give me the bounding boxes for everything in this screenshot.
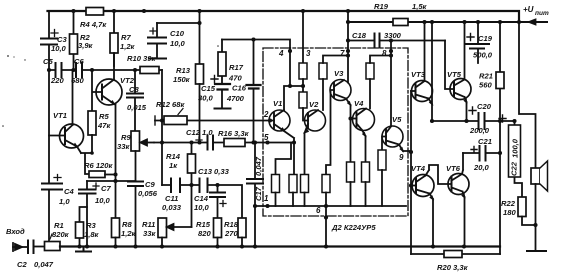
svg-text:R11: R11 xyxy=(142,220,155,229)
label pin 1 xyxy=(264,194,269,203)
node dots pin 8 xyxy=(389,38,393,57)
resistor R12 xyxy=(164,109,187,125)
svg-text:4: 4 xyxy=(278,49,284,58)
capacitor C5 xyxy=(56,63,62,77)
resistor R16 xyxy=(224,139,245,147)
node junctions top rail xyxy=(71,9,305,13)
wire C10 line xyxy=(157,11,200,64)
svg-text:33к: 33к xyxy=(117,142,130,151)
transistor V4 xyxy=(351,109,375,163)
svg-text:820к: 820к xyxy=(52,230,70,239)
resistor internal RB5 xyxy=(378,150,386,206)
label V4 xyxy=(354,99,364,108)
node dots pin5 line xyxy=(189,140,296,144)
svg-text:180: 180 xyxy=(503,208,516,217)
svg-text:10,0: 10,0 xyxy=(194,203,210,212)
ground under R3 xyxy=(76,247,91,252)
resistor internal Rb4 xyxy=(322,175,330,207)
resistor R4 xyxy=(86,8,104,16)
capacitor C4 electrolytic xyxy=(42,175,62,190)
label C12 1,0 xyxy=(186,128,213,137)
resistor R20 xyxy=(444,251,462,258)
svg-text:R14: R14 xyxy=(166,152,181,161)
transistor V3 xyxy=(330,80,351,163)
label C20 200,0 xyxy=(469,102,492,135)
svg-text:560: 560 xyxy=(479,81,492,90)
svg-text:0,056: 0,056 xyxy=(138,189,158,198)
svg-text:V5: V5 xyxy=(392,115,402,124)
capacitor C20 electrolytic xyxy=(469,107,485,129)
svg-text:C22: C22 xyxy=(510,161,519,176)
svg-text:R3: R3 xyxy=(86,221,96,230)
transistor V1 xyxy=(269,110,294,175)
capacitor C12 electrolytic xyxy=(196,136,213,150)
wire VT2 emitter vertical xyxy=(115,105,117,219)
label R17 470 xyxy=(228,63,244,83)
label C19 500,0 xyxy=(473,34,493,60)
wire R20 feedback line xyxy=(411,253,500,255)
scan specks xyxy=(2,45,219,232)
svg-text:R8: R8 xyxy=(122,220,132,229)
resistor R14 xyxy=(188,143,196,228)
wire internal bottom bus xyxy=(255,205,406,207)
transistor VT4 xyxy=(411,165,452,247)
wire wiper line to pin5 xyxy=(154,142,294,144)
wire pin9 driver vertical xyxy=(410,91,412,254)
label R1 820k xyxy=(52,221,70,239)
label C5 220 xyxy=(43,57,64,85)
svg-text:C16: C16 xyxy=(232,84,247,93)
wire C18 to VT5 base xyxy=(445,41,454,90)
resistor internal RA2 xyxy=(299,92,308,121)
label C15 30,0 xyxy=(198,84,216,103)
wire R10 drop vertical x162 xyxy=(161,70,163,185)
capacitor C8 xyxy=(127,70,143,131)
svg-text:270: 270 xyxy=(224,229,238,238)
label C16 4700 xyxy=(226,84,247,104)
svg-text:VT1: VT1 xyxy=(53,111,67,120)
svg-text:VT2: VT2 xyxy=(120,76,135,85)
wire y181 branch xyxy=(87,180,136,182)
svg-text:C5: C5 xyxy=(43,57,53,66)
node dots emitter vertical xyxy=(113,172,117,183)
resistor R21 xyxy=(496,22,504,254)
svg-text:R7: R7 xyxy=(121,33,131,42)
node dot R5 bottom xyxy=(90,151,94,155)
label R15 820 xyxy=(196,220,211,238)
wire C11 C13 line xyxy=(162,185,242,218)
svg-text:220: 220 xyxy=(50,76,64,85)
label C6 680 xyxy=(71,57,84,85)
IC D2 K224UR5 dashed border xyxy=(263,48,408,216)
label R2 3,9k xyxy=(78,33,94,50)
svg-text:3300: 3300 xyxy=(384,31,402,40)
svg-text:1,8к: 1,8к xyxy=(84,230,100,239)
resistor R19 xyxy=(393,19,408,26)
ground speaker xyxy=(527,250,546,252)
label C14 10,0 xyxy=(194,194,210,212)
svg-text:9: 9 xyxy=(399,153,404,162)
resistor R2 xyxy=(70,11,78,70)
resistor internal Rb2 xyxy=(289,175,297,207)
wire pin4 feed line xyxy=(222,40,290,49)
svg-text:V4: V4 xyxy=(354,99,364,108)
svg-text:R12 68к: R12 68к xyxy=(156,100,185,109)
svg-text:8: 8 xyxy=(382,49,387,58)
label pin 9 xyxy=(399,153,404,162)
svg-text:500,0: 500,0 xyxy=(473,51,493,60)
capacitor C6 xyxy=(76,63,82,77)
svg-text:6: 6 xyxy=(316,206,321,215)
capacitor C14 electrolytic xyxy=(210,185,226,218)
capacitor C2 xyxy=(28,241,45,254)
resistor R15 xyxy=(214,218,222,247)
resistor R3 xyxy=(76,207,88,247)
terminal input arrow xyxy=(13,243,28,251)
svg-text:C7: C7 xyxy=(101,184,111,193)
node dot C14 tap xyxy=(215,183,219,187)
resistor internal Rb5 xyxy=(347,162,355,206)
node dots x162 xyxy=(160,118,164,144)
resistor internal RC xyxy=(366,56,391,109)
label C2 0,047 xyxy=(17,260,54,269)
wire output node line xyxy=(432,120,515,122)
label pin 5 xyxy=(264,133,269,142)
svg-text:R17: R17 xyxy=(229,63,244,72)
svg-text:47к: 47к xyxy=(97,121,111,130)
svg-text:R13: R13 xyxy=(176,66,191,75)
ground bar under C10 xyxy=(149,58,166,60)
capacitor C11 xyxy=(171,179,180,193)
label R5 47k xyxy=(97,112,111,130)
svg-text:33к: 33к xyxy=(143,229,156,238)
svg-text:4700: 4700 xyxy=(226,94,245,103)
svg-text:470: 470 xyxy=(228,74,242,83)
resistor internal RB xyxy=(319,56,348,111)
svg-text:R6 120к: R6 120к xyxy=(84,161,113,170)
label C21 20,0 xyxy=(473,137,492,172)
svg-text:1,5к: 1,5к xyxy=(412,2,428,11)
label R16 3,3k xyxy=(218,129,250,138)
resistor R8 xyxy=(112,218,120,247)
label R19 1,5k xyxy=(374,2,428,11)
resistor R17 xyxy=(218,40,226,85)
label R21 560 xyxy=(479,72,493,90)
node dot R14 bottom xyxy=(189,183,193,187)
node dots driver vertical xyxy=(409,150,413,188)
svg-text:R20 3,3к: R20 3,3к xyxy=(437,263,469,272)
label pin 6 xyxy=(316,206,321,215)
label D2 K224UR5 xyxy=(331,223,376,232)
svg-text:10,0: 10,0 xyxy=(51,44,67,53)
wire C5 C6 line xyxy=(49,69,162,71)
resistor R13 xyxy=(196,64,204,143)
label C17 0,047 rotated xyxy=(254,156,263,201)
svg-text:C4: C4 xyxy=(64,187,74,196)
wire VT1 emitter to R6 xyxy=(81,153,92,174)
capacitor C9 xyxy=(128,182,143,247)
svg-text:R16 3,3к: R16 3,3к xyxy=(218,129,250,138)
transistor VT3 xyxy=(411,22,433,105)
wire left vertical input chain xyxy=(48,11,50,242)
transistor V2 xyxy=(304,110,325,175)
svg-text:10,0: 10,0 xyxy=(95,196,111,205)
label C10 10,0 xyxy=(170,29,186,48)
svg-text:0,015: 0,015 xyxy=(127,103,147,112)
capacitor C18 xyxy=(375,34,380,48)
svg-text:C14: C14 xyxy=(194,194,209,203)
label C4 1,0 xyxy=(59,187,74,206)
wire C21 line xyxy=(463,152,500,154)
svg-text:Вход: Вход xyxy=(6,227,25,236)
resistor R6 xyxy=(89,171,116,178)
svg-text:1: 1 xyxy=(264,194,269,203)
svg-text:R18: R18 xyxy=(224,220,239,229)
label R9 33k xyxy=(117,133,131,151)
node dot C10 line xyxy=(197,21,201,25)
transistor VT1 xyxy=(49,70,84,153)
resistor R1 xyxy=(45,234,61,251)
svg-text:0,047: 0,047 xyxy=(254,156,263,176)
svg-text:C9: C9 xyxy=(145,180,155,189)
node dot speaker return xyxy=(533,223,537,227)
svg-text:пит: пит xyxy=(535,10,549,17)
svg-text:R4 4,7к: R4 4,7к xyxy=(80,20,107,29)
label R8 1,2k xyxy=(121,220,137,238)
label R14 1k xyxy=(166,152,181,170)
svg-text:150к: 150к xyxy=(173,75,191,84)
svg-text:1к: 1к xyxy=(169,161,178,170)
wire bottom ground rail xyxy=(60,245,500,247)
node dots y86 xyxy=(288,84,305,88)
label pin 7 xyxy=(340,49,345,58)
svg-text:0,047: 0,047 xyxy=(34,260,54,269)
label VT5 xyxy=(447,70,462,79)
label R20 3,3k xyxy=(437,263,469,272)
resistor internal Rb3 xyxy=(301,175,309,207)
label R6 120k xyxy=(84,161,113,170)
svg-text:C11: C11 xyxy=(165,194,178,203)
label R18 270 xyxy=(224,220,239,238)
label C13 0,33 xyxy=(198,167,230,176)
svg-text:VT6: VT6 xyxy=(446,164,461,173)
label V2 xyxy=(309,100,319,109)
label VT4 xyxy=(411,164,426,173)
label +Upit xyxy=(523,5,549,17)
label VT6 xyxy=(446,164,461,173)
svg-text:R1: R1 xyxy=(54,221,64,230)
label Vhod xyxy=(6,227,25,236)
node dot C21 right xyxy=(498,151,502,155)
label C22 100,0 rotated xyxy=(510,138,520,176)
label R10 39k xyxy=(127,54,156,63)
label R7 1,2k xyxy=(120,33,136,51)
transistor V5 xyxy=(382,126,411,152)
label pin 2 xyxy=(263,110,269,119)
potentiometer R9 xyxy=(131,131,154,181)
node dot V4 base tap xyxy=(348,116,352,120)
svg-text:C3: C3 xyxy=(57,35,67,44)
speaker Gr xyxy=(531,161,548,251)
label C7 10,0 xyxy=(95,184,111,205)
pin 7 wire xyxy=(347,11,349,83)
resistor internal Rb1 xyxy=(272,143,292,207)
resistor R5 xyxy=(88,111,96,153)
pin 3 wire xyxy=(302,11,304,63)
pin 8 wire V5 collector xyxy=(390,41,392,127)
svg-text:3,9к: 3,9к xyxy=(78,41,94,50)
label R13 150k xyxy=(173,66,191,84)
node dots bus xyxy=(253,204,328,220)
transistor VT2 xyxy=(92,53,122,111)
terminal +Upit arrow xyxy=(529,20,536,25)
resistor internal Rb6 xyxy=(362,162,370,206)
svg-text:200,0: 200,0 xyxy=(469,126,490,135)
svg-text:V1: V1 xyxy=(273,99,282,108)
svg-text:R21: R21 xyxy=(479,72,493,81)
svg-text:Д2 К224УР5: Д2 К224УР5 xyxy=(331,223,376,232)
svg-text:+U: +U xyxy=(523,5,534,14)
node dots pin 7 xyxy=(346,9,350,58)
label C3 10,0 xyxy=(51,35,67,53)
svg-text:C6: C6 xyxy=(74,57,84,66)
svg-text:VT5: VT5 xyxy=(447,70,462,79)
label C8 0,015 xyxy=(127,85,147,112)
svg-text:1,0: 1,0 xyxy=(59,197,70,206)
pin 4 wire xyxy=(289,48,291,86)
label R4 4,7k xyxy=(80,20,107,29)
wire V3 base bias xyxy=(326,90,334,175)
capacitor C17 vertical xyxy=(247,143,263,247)
label C11 0,033 xyxy=(162,194,182,212)
svg-text:820: 820 xyxy=(198,229,211,238)
svg-text:C2: C2 xyxy=(17,260,27,269)
capacitor C15 electrolytic to ground xyxy=(211,76,231,109)
label pin 8 xyxy=(382,49,387,58)
capacitor C19 electrolytic xyxy=(466,22,489,63)
svg-text:10,0: 10,0 xyxy=(170,39,186,48)
resistor R22 xyxy=(518,197,536,225)
resistor R10 xyxy=(140,67,159,74)
svg-text:3: 3 xyxy=(306,49,311,58)
svg-text:C17: C17 xyxy=(254,186,263,201)
resistor internal RA xyxy=(299,63,307,79)
svg-text:C20: C20 xyxy=(477,102,492,111)
svg-text:R15: R15 xyxy=(196,220,211,229)
svg-text:VT3: VT3 xyxy=(411,70,426,79)
wire V5 base resistor xyxy=(382,137,386,151)
node dot C16 top xyxy=(251,37,255,41)
svg-text:V2: V2 xyxy=(309,100,319,109)
label R11 33k xyxy=(142,220,156,238)
capacitor C22 electrolytic box xyxy=(499,115,522,197)
svg-text:R19: R19 xyxy=(374,2,389,11)
label R22 180 xyxy=(501,199,516,217)
node dots output line xyxy=(430,119,517,123)
capacitor C16 vertical xyxy=(247,40,261,143)
label C9 0,056 xyxy=(138,180,158,198)
capacitor C13 xyxy=(200,179,208,193)
node dot pin 2 xyxy=(268,118,272,122)
wire node y86 xyxy=(284,79,303,110)
svg-text:20,0: 20,0 xyxy=(473,163,490,172)
label pin 4 xyxy=(278,49,284,58)
label C18 3300 xyxy=(352,31,402,40)
resistor R18 xyxy=(238,218,246,247)
svg-text:VT4: VT4 xyxy=(411,164,426,173)
svg-text:V3: V3 xyxy=(334,69,344,78)
transistor VT6 xyxy=(448,153,469,247)
label VT3 xyxy=(411,70,426,79)
svg-text:R9: R9 xyxy=(121,133,131,142)
svg-text:0,033: 0,033 xyxy=(162,203,182,212)
svg-text:C21: C21 xyxy=(478,137,492,146)
potentiometer R11 xyxy=(158,218,192,247)
svg-text:C18: C18 xyxy=(352,31,367,40)
wire R19 bootstrap vertical xyxy=(431,22,433,121)
label V3 xyxy=(334,69,344,78)
svg-text:C8: C8 xyxy=(129,85,139,94)
svg-text:7: 7 xyxy=(340,49,345,58)
wire C18 line xyxy=(348,40,445,42)
node dot pin 4 xyxy=(288,49,292,53)
wire speaker feed from rail xyxy=(519,22,536,168)
node junctions +U line xyxy=(346,20,521,24)
svg-text:1,2к: 1,2к xyxy=(121,229,137,238)
svg-text:2: 2 xyxy=(263,110,269,119)
transistor VT5 xyxy=(450,22,471,121)
svg-text:C19: C19 xyxy=(478,34,493,43)
label V5 xyxy=(392,115,402,124)
svg-text:C13 0,33: C13 0,33 xyxy=(198,167,230,176)
svg-text:C15: C15 xyxy=(201,84,216,93)
label pin 3 xyxy=(306,49,311,58)
label R3 1,8k xyxy=(84,221,100,239)
label VT1 xyxy=(53,111,67,120)
node dots on C5-C6 line xyxy=(47,68,137,72)
svg-text:C10: C10 xyxy=(170,29,185,38)
label R12 68k xyxy=(156,100,185,109)
wire R12 pin2 line xyxy=(155,116,274,125)
capacitor C3 xyxy=(41,30,58,45)
svg-text:5: 5 xyxy=(264,133,269,142)
svg-text:R5: R5 xyxy=(99,112,109,121)
svg-text:100,0: 100,0 xyxy=(511,138,520,158)
label VT2 xyxy=(120,76,135,85)
svg-text:R22: R22 xyxy=(501,199,516,208)
label V1 xyxy=(273,99,282,108)
pin 6 wire xyxy=(325,206,327,247)
node dots bottom rail xyxy=(77,244,466,248)
svg-text:1,2к: 1,2к xyxy=(120,42,136,51)
capacitor C7 electrolytic xyxy=(79,181,99,247)
resistor R7 xyxy=(110,11,118,66)
svg-text:30,0: 30,0 xyxy=(198,94,214,103)
wire top supply rail xyxy=(48,11,520,22)
capacitor C10 electrolytic xyxy=(148,23,166,58)
capacitor C21 electrolytic xyxy=(471,146,486,161)
wire +U feed line xyxy=(348,21,547,23)
